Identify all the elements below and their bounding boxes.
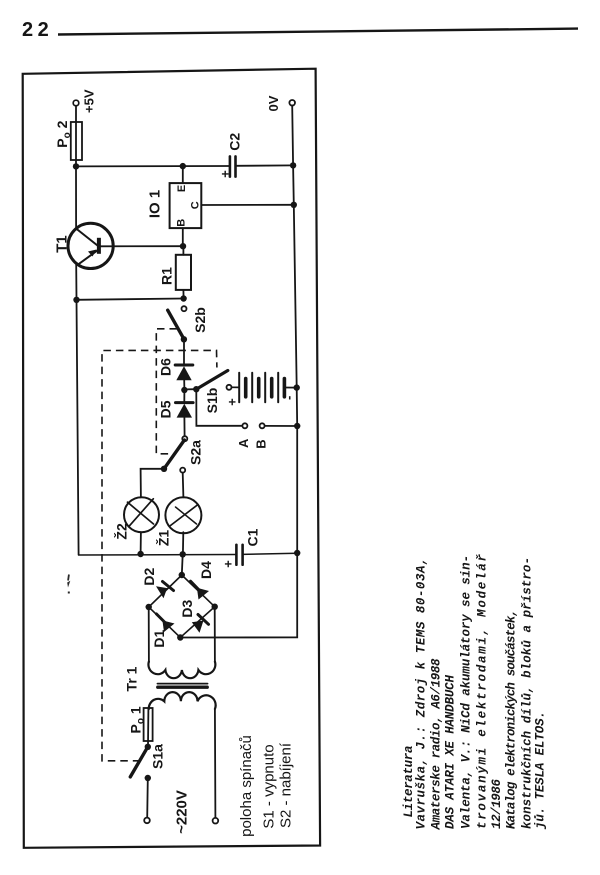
labels (rotated) (53, 89, 296, 837)
svg-text:Amaterske radio, A6/1988: Amaterske radio, A6/1988 (430, 658, 444, 830)
svg-text:D4: D4 (198, 561, 214, 579)
svg-text:D5: D5 (158, 400, 174, 418)
wire +5V rail (76, 165, 229, 167)
svg-text:+: + (218, 170, 233, 178)
dashed link S1a-S1b (102, 350, 217, 760)
lamp Z2 (124, 497, 159, 532)
header rule (58, 29, 578, 35)
wire secondary left (148, 607, 150, 662)
wire primary right lead (214, 709, 217, 819)
svg-text:-: - (281, 396, 296, 400)
fuse Po2 (71, 122, 82, 160)
svg-text:D1: D1 (151, 630, 167, 648)
svg-text:C: C (190, 201, 202, 209)
ink speck artifacts (67, 574, 70, 593)
wire emitter (75, 265, 77, 300)
switch S1a (130, 747, 148, 777)
wire lamp rail (79, 554, 236, 557)
dashed link S2a-S2b (156, 329, 177, 454)
diode D6 (175, 365, 193, 390)
wire B to 0V rail (265, 425, 298, 427)
transformer Tr1 primary winding (149, 692, 216, 709)
svg-text:Valenta, V.: NiCd akumulátory: Valenta, V.: NiCd akumulátory se sin- (460, 555, 474, 829)
svg-text:+: + (225, 398, 240, 406)
svg-text:jů. TESLA ELTOS.: jů. TESLA ELTOS. (534, 711, 548, 830)
svg-text:0V: 0V (266, 95, 281, 111)
svg-text:trovanými elektrodami,: trovanými elektrodami, Modelář (476, 554, 490, 829)
diode D1 (157, 614, 175, 632)
wire S2a common to lamp Z2 (141, 469, 164, 498)
svg-text:Ž2: Ž2 (112, 523, 129, 540)
svg-text:T1: T1 (53, 235, 70, 253)
lamp Z1 (165, 497, 201, 533)
svg-text:S1 - vypnuto: S1 - vypnuto (261, 744, 278, 828)
capacitor C1 (236, 545, 242, 565)
battery B1 (232, 373, 297, 403)
svg-text:S1b: S1b (204, 388, 220, 414)
svg-text:C2: C2 (226, 133, 242, 151)
wire emitter to lamp rail (77, 300, 79, 555)
wire E pin stub (182, 166, 184, 183)
literatura text block (402, 554, 548, 831)
svg-text:S1a: S1a (150, 744, 166, 769)
wire bridge plus stub (181, 554, 184, 575)
wire S1a to terminal (146, 778, 149, 818)
svg-text:22: 22 (22, 19, 53, 41)
wire +5V to fuse (75, 106, 77, 122)
svg-text:C1: C1 (245, 528, 261, 546)
svg-text:D3: D3 (179, 600, 195, 618)
svg-text:12/1986: 12/1986 (490, 779, 504, 829)
svg-text:IO 1: IO 1 (146, 190, 163, 218)
wire secondary right (214, 607, 216, 662)
diode D2 (156, 582, 174, 599)
resistor R1 (176, 255, 191, 290)
svg-text:Katalog elektronických součá: Katalog elektronických součástek, (505, 609, 519, 829)
svg-text:konstrukčních dílů, bloků a p: konstrukčních dílů, bloků a přístro- (521, 557, 535, 829)
svg-text:+: + (221, 560, 236, 568)
terminal 220V left (144, 818, 150, 824)
bridge diamond wires (149, 575, 215, 638)
wire S1b to A terminal (196, 389, 242, 426)
switch S2a (164, 436, 187, 472)
svg-text:R1: R1 (159, 267, 175, 285)
svg-text:D2: D2 (141, 568, 157, 586)
schematic frame (23, 69, 320, 848)
svg-text:S2a: S2a (188, 440, 204, 465)
terminal 220V right (213, 818, 219, 824)
fuse Po1 (144, 708, 153, 741)
svg-text:B: B (254, 439, 269, 448)
switch S2b (168, 306, 187, 339)
terminal B (260, 423, 265, 428)
wire base (99, 245, 183, 247)
svg-text:+5V: +5V (82, 89, 97, 113)
svg-text:A: A (236, 438, 251, 448)
svg-text:B: B (175, 219, 187, 227)
diode D5 (176, 390, 194, 436)
svg-text:~220V: ~220V (174, 790, 191, 834)
svg-text:S2 - nabíjení: S2 - nabíjení (278, 742, 295, 828)
wire S2b to D6 (183, 340, 185, 365)
svg-text:poloha spínačů: poloha spínačů (238, 735, 255, 837)
switch S1b (196, 371, 231, 390)
op-amp U1 (IO 1 regulator box) (170, 183, 202, 228)
svg-text:Tr 1: Tr 1 (124, 666, 140, 691)
svg-text:DAS ATARI XE HANDBUCH: DAS ATARI XE HANDBUCH (444, 675, 458, 829)
diode D4 (191, 581, 210, 599)
svg-text:Ž1: Ž1 (154, 530, 171, 547)
wire node rail S2b (77, 299, 184, 300)
terminal A (242, 423, 247, 428)
diode D3 (192, 615, 209, 633)
wire C pin (201, 204, 293, 206)
svg-text:Vavruška, J.: Zdroj k TEMS 8: Vavruška, J.: Zdroj k TEMS 80-03A, (415, 558, 429, 830)
capacitor C2 (230, 156, 236, 176)
wire S2a contact to lamp Z1 (182, 473, 185, 498)
wire B pin stub (182, 228, 184, 246)
terminal +5V (73, 100, 79, 106)
wire 0V rail (180, 105, 297, 637)
transistor T1 (68, 223, 113, 268)
terminal 0V (289, 100, 295, 106)
transformer Tr1 secondary winding (148, 662, 215, 679)
wire lamp leads to rail (140, 532, 142, 554)
svg-text:D6: D6 (158, 358, 174, 376)
svg-text:S2b: S2b (192, 307, 208, 333)
wire collector (75, 166, 77, 228)
node D6-D5 (184, 388, 196, 390)
svg-text:E: E (176, 185, 188, 192)
transformer core (158, 683, 208, 685)
